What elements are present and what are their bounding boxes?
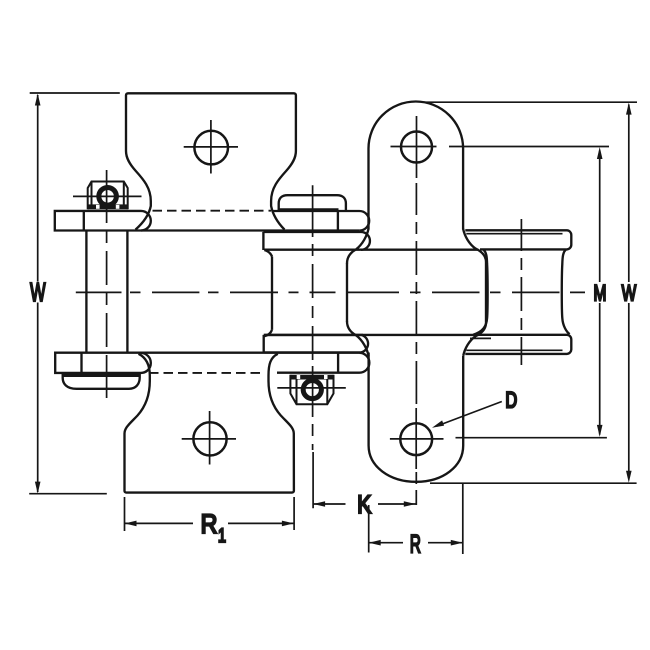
dimension W right: extension lines	[422, 102, 637, 483]
bottom side-bar strip	[55, 353, 359, 373]
dimension K: extension line at pin P2	[313, 503, 416, 505]
K arrows	[313, 501, 416, 507]
shelf edge top (merged line to side-bar block)	[265, 249, 479, 251]
cotter ring on pin P1	[96, 185, 119, 208]
lug lower-left flare	[347, 321, 369, 356]
dome head on pin P1 bottom	[63, 374, 140, 389]
side-bar block right edge	[485, 262, 487, 323]
top plate hole	[194, 131, 228, 165]
dimension R1: extension lines	[125, 497, 295, 531]
bottom plate hole	[193, 422, 226, 455]
lug bottom hole	[400, 423, 432, 455]
svg-text:R: R	[410, 531, 421, 559]
bottom strip inner edge right	[337, 353, 339, 373]
top strip hidden edge (dashed)	[153, 210, 272, 212]
lug upper-right flare	[463, 229, 486, 262]
dimension M: line	[456, 151, 607, 438]
shelf edge bottom (merged line to side-bar block)	[264, 334, 478, 336]
spool centerline	[520, 219, 522, 365]
svg-text:W: W	[622, 280, 637, 305]
W right arrows	[626, 103, 632, 483]
spool top flange	[465, 230, 571, 249]
spool waist	[473, 250, 487, 335]
side-bar block left edge	[346, 263, 348, 322]
dimension W right line	[628, 105, 630, 479]
lug upper part	[369, 102, 464, 230]
cap (dome) on pin P2 top	[279, 195, 346, 211]
pin P1 nut crosshair	[73, 195, 142, 197]
roller (plan view) left edge	[271, 257, 273, 330]
top plate hole crosshair	[184, 120, 238, 174]
R arrows	[369, 540, 463, 546]
dimension R: extension lines	[369, 484, 463, 555]
lug lower part	[369, 353, 464, 482]
bottom plate hole crosshair	[182, 411, 236, 465]
svg-text:M: M	[593, 280, 606, 305]
pin P2 centerline	[312, 185, 315, 508]
M arrows	[597, 147, 603, 437]
top attachment plate	[126, 93, 296, 229]
pin P1 centerline	[106, 170, 108, 398]
top strip inner edge right	[337, 211, 339, 231]
bottom strip rounded right end	[141, 353, 369, 373]
W left arrows	[35, 94, 41, 494]
top strip inner edge left	[83, 211, 85, 231]
lug lower-right flare	[463, 323, 486, 356]
top side-bar strip	[55, 211, 360, 231]
bottom strip inner edge left	[80, 353, 82, 373]
lug bottom hole crosshair	[390, 408, 444, 469]
bottom attachment plate	[124, 354, 293, 493]
roller flare top-left	[264, 250, 272, 257]
svg-text:D: D	[505, 387, 517, 412]
svg-text:1: 1	[218, 526, 226, 547]
lug upper-left flare	[347, 229, 369, 264]
dimension W left line	[37, 95, 39, 492]
spool bottom flange	[465, 335, 571, 354]
pin P2 nut crosshair	[277, 387, 346, 389]
svg-text:W: W	[30, 279, 45, 307]
lug top hole crosshair + M extension	[391, 116, 610, 178]
R1 arrows	[125, 521, 294, 527]
top strip rounded right end	[141, 211, 369, 231]
second strip bottom (bushing flange)	[264, 335, 368, 353]
second strip top (bushing flange)	[263, 232, 370, 250]
lug top hole	[401, 132, 432, 163]
centerline chain axis	[76, 291, 585, 293]
cotter ring on pin P2	[301, 378, 324, 401]
castle nut on pin P1 (top)	[88, 182, 128, 210]
castle nut on pin P2 (bottom)	[290, 375, 333, 405]
pin P1 shank	[86, 231, 127, 353]
lug centerline	[415, 183, 417, 505]
bottom strip hidden edge (dashed)	[149, 372, 264, 374]
dimension W left: extension lines	[29, 93, 120, 494]
roller flare bottom-left	[264, 330, 272, 336]
svg-text:R: R	[201, 509, 218, 539]
